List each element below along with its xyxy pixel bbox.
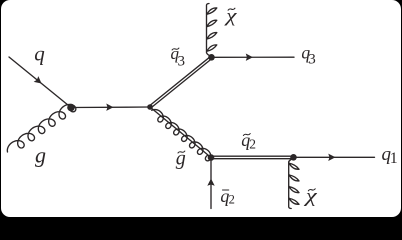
arrow on q1 — [328, 154, 335, 161]
label q2bar : overbar — [223, 189, 229, 191]
svg-text:g: g — [176, 147, 186, 169]
outgoing quark q1 line — [294, 156, 375, 158]
gluino g~ coil — [152, 110, 211, 161]
svg-text:g: g — [35, 143, 46, 168]
incoming quark q line — [9, 57, 71, 108]
gluon g coil — [7, 104, 76, 152]
arrow on internal quark — [106, 104, 113, 111]
neutralino chi zigzag (top) — [207, 4, 217, 57]
arrow on q2bar (pointing up) — [207, 179, 214, 186]
svg-text:2: 2 — [229, 193, 235, 207]
internal quark propagator V1-V2 — [71, 106, 150, 109]
gluino straight line through coil — [150, 107, 211, 158]
arrow on incoming quark q — [34, 76, 42, 83]
label chi~ top : tilde — [228, 8, 235, 10]
vertex V4 — [208, 154, 215, 161]
incoming antiquark q2bar line — [210, 160, 212, 209]
squark q2 double-line propagator — [211, 156, 294, 159]
svg-text:1: 1 — [390, 150, 398, 167]
label g~ : tilde — [178, 151, 185, 153]
neutralino chi zigzag (bottom) — [289, 158, 299, 208]
svg-text:3: 3 — [178, 54, 186, 70]
vertex V5 — [290, 154, 297, 161]
arrow on q3 — [246, 54, 253, 61]
vertex V2 — [147, 104, 153, 110]
label q~3 : tilde — [172, 48, 179, 50]
outgoing quark q3 line — [212, 56, 295, 58]
svg-text:q: q — [34, 42, 45, 66]
squark q3 double-line propagator — [149, 56, 212, 108]
vertex V3 — [208, 54, 215, 61]
svg-text:3: 3 — [308, 51, 316, 67]
svg-text:2: 2 — [249, 137, 256, 152]
label q~2 : tilde — [243, 134, 250, 136]
label chi~ bottom : tilde — [308, 189, 315, 191]
svg-text:χ: χ — [304, 185, 319, 207]
vertex blob V1 — [67, 104, 75, 112]
